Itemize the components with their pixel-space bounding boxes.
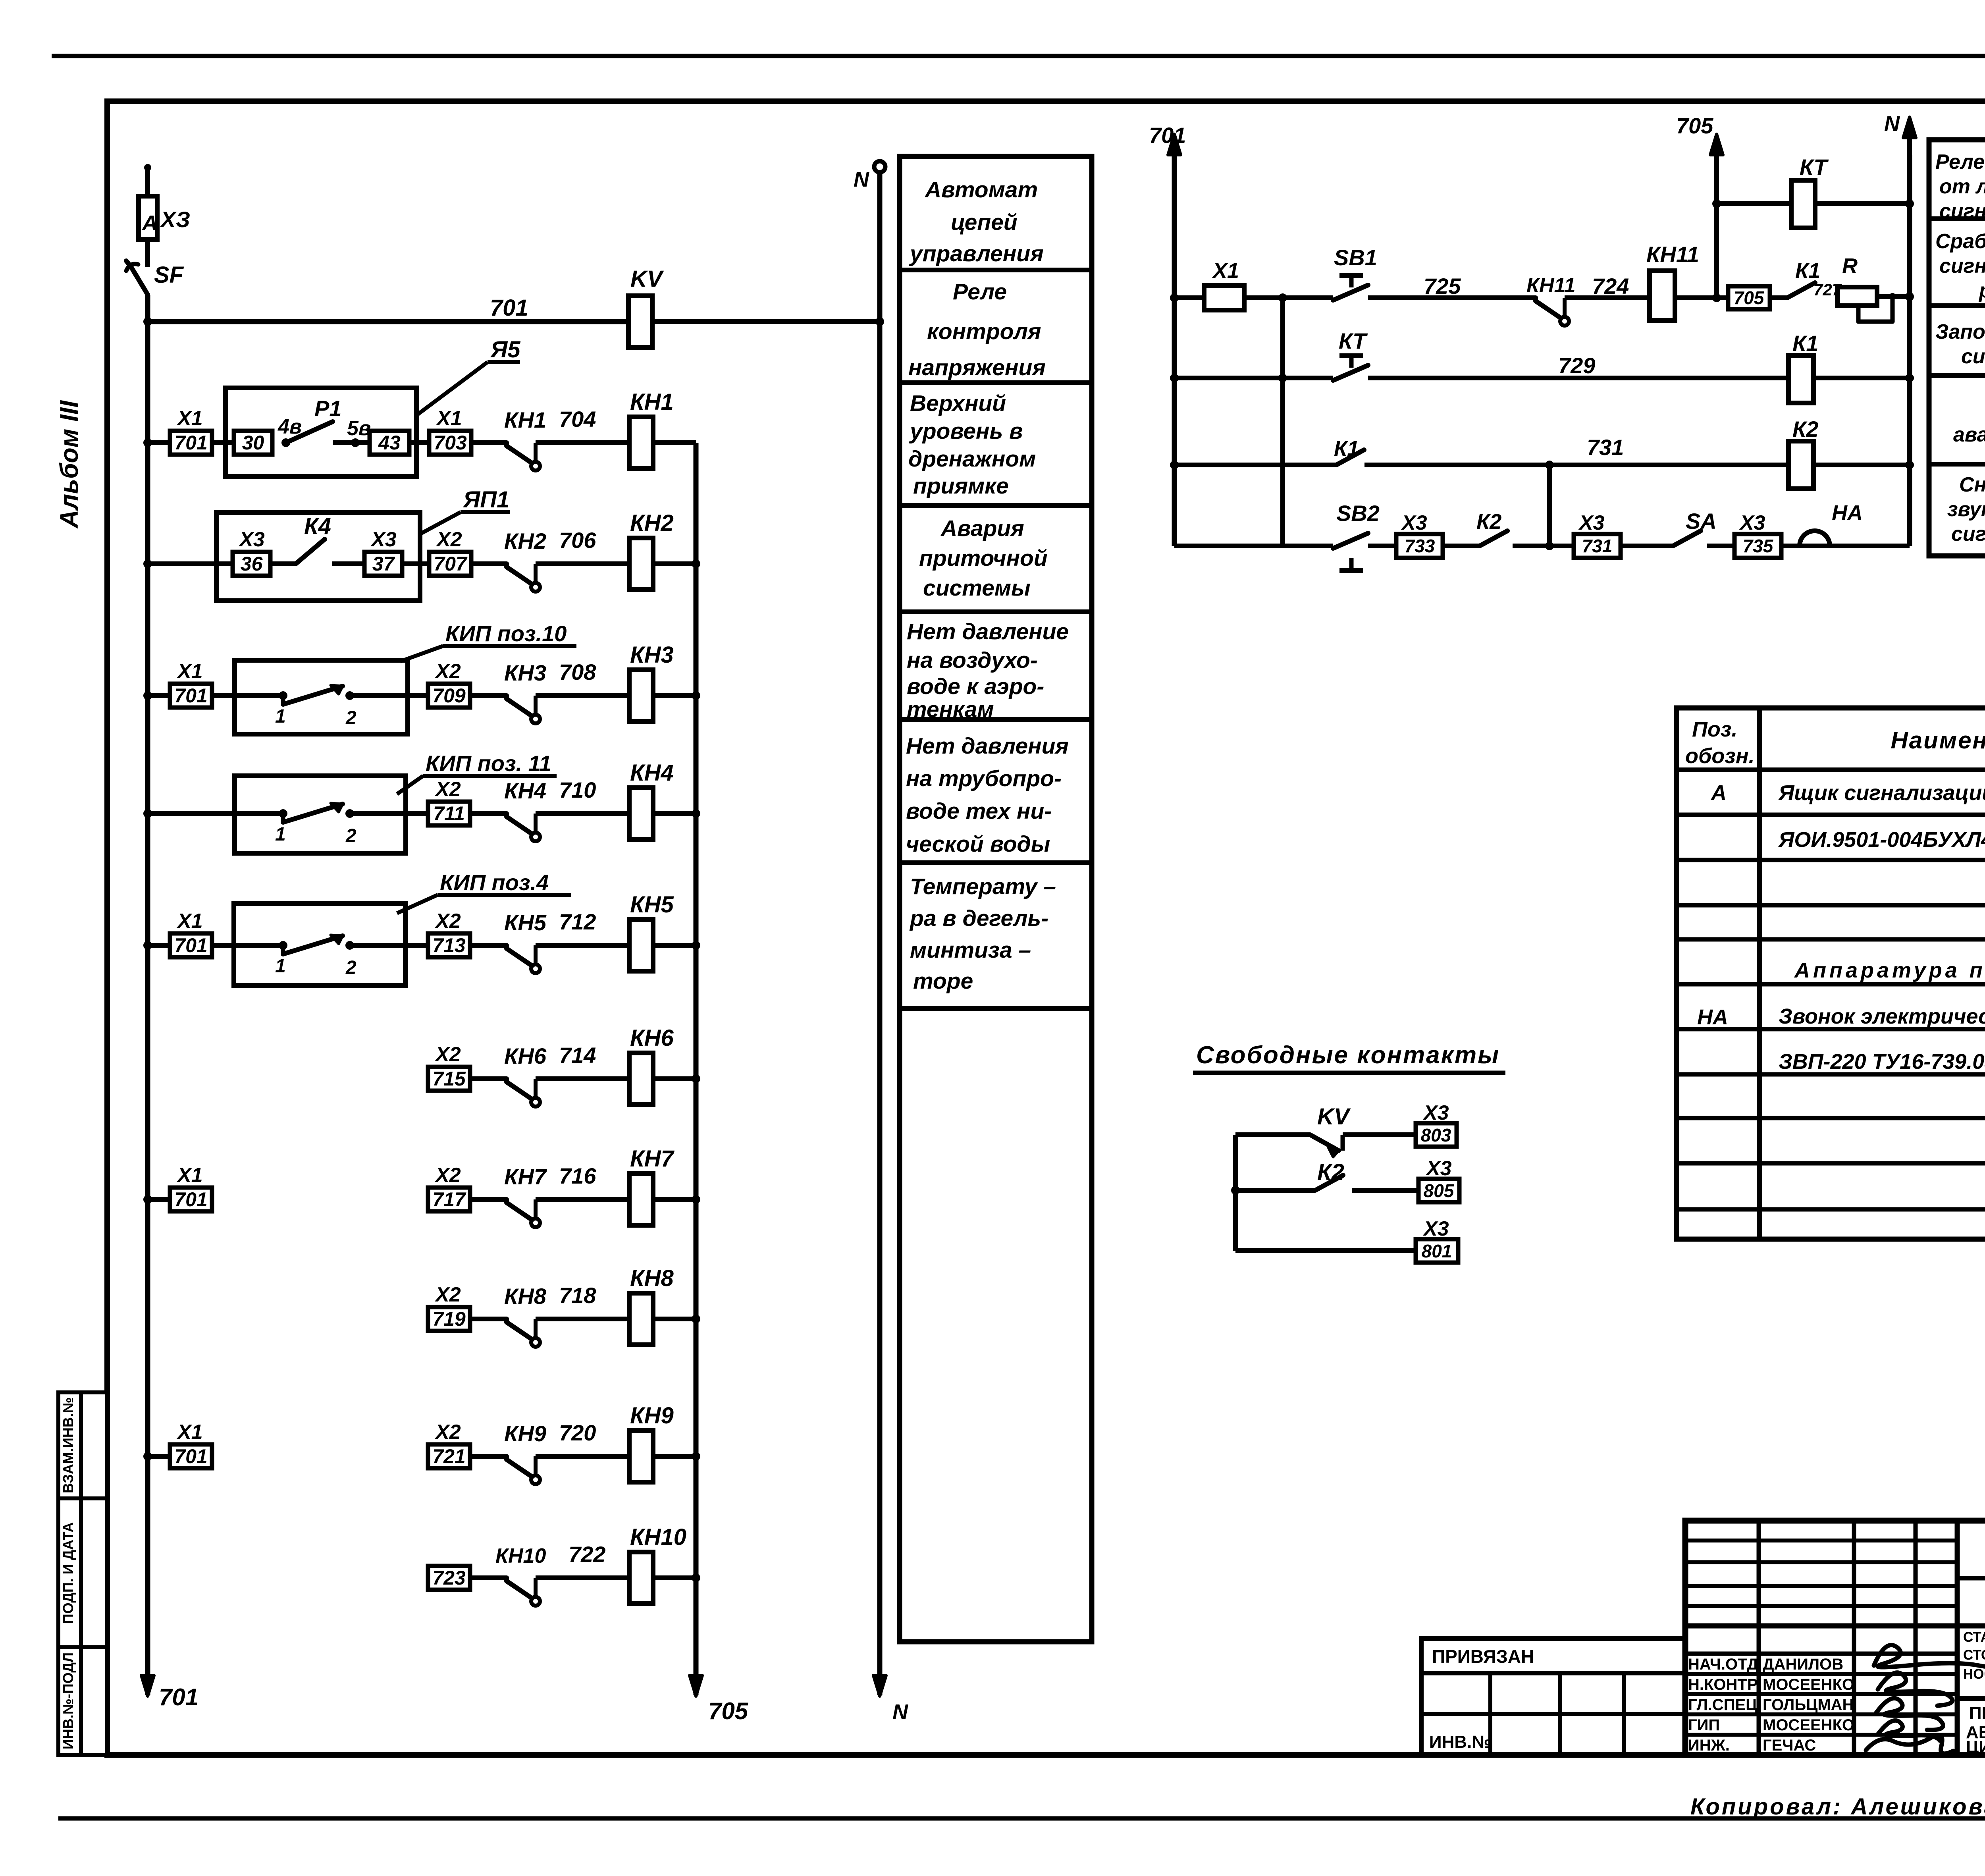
- free contacts left vertical wire: [1233, 1135, 1238, 1251]
- privyazan grid: [1421, 1712, 1685, 1716]
- svg-text:воде к аэро-: воде к аэро-: [907, 674, 1044, 699]
- svg-text:701: 701: [1149, 123, 1186, 148]
- wire КН11 coil to node: [1675, 295, 1728, 300]
- wire coil КН9 to bus 705: [653, 1454, 696, 1459]
- node row-d branch: [1545, 542, 1554, 550]
- wire 704: [536, 440, 629, 445]
- svg-text:Х2: Х2: [434, 910, 461, 933]
- branch vertical row-c to row-d: [1547, 465, 1552, 546]
- svg-text:КН7: КН7: [630, 1146, 675, 1172]
- svg-text:724: 724: [1592, 274, 1629, 299]
- wire 43 to X1/703: [409, 440, 429, 445]
- underline Аппаратура по месту: [1792, 982, 1985, 986]
- privyazan table box: [1421, 1639, 1685, 1755]
- node row3 bus 705: [692, 691, 700, 700]
- svg-text:ПОДП. И ДАТА: ПОДП. И ДАТА: [60, 1522, 76, 1624]
- svg-text:А: А: [1710, 781, 1727, 805]
- svg-text:708: 708: [559, 659, 596, 684]
- parts table header row line: [1677, 767, 1985, 772]
- wire SB2 to X3/733: [1368, 544, 1396, 548]
- svg-text:1: 1: [275, 706, 286, 727]
- wire coil КН5 to bus 705: [653, 943, 696, 948]
- wire 718: [536, 1317, 629, 1321]
- wire K2 to X3/805: [1352, 1188, 1418, 1193]
- wire K2 row: [1235, 1188, 1315, 1193]
- title block name rows: [1685, 1672, 1957, 1676]
- svg-text:на трубопро-: на трубопро-: [906, 766, 1062, 791]
- instrument box КИП поз. 11: [235, 776, 406, 853]
- svg-text:Звонок электрический: Звонок электрический: [1779, 1005, 1985, 1028]
- svg-text:703: 703: [434, 432, 467, 454]
- svg-text:КН10: КН10: [630, 1524, 686, 1550]
- svg-text:КН4: КН4: [630, 760, 674, 786]
- svg-text:Х3: Х3: [370, 528, 397, 551]
- wire 712: [536, 943, 629, 948]
- function column divider: [900, 268, 1092, 272]
- svg-text:К1: К1: [1795, 259, 1820, 283]
- node row-c at N bus: [1905, 461, 1914, 469]
- wire switch to X2 row3: [350, 693, 428, 698]
- node row7 bus 705: [692, 1195, 700, 1204]
- svg-text:обозн.: обозн.: [1685, 744, 1755, 768]
- svg-text:SB2: SB2: [1336, 501, 1380, 526]
- wire Х2-715 to contact КН6: [470, 1076, 507, 1081]
- wire bottom row to X3/801: [1235, 1248, 1416, 1253]
- svg-text:709: 709: [432, 684, 466, 707]
- svg-text:X1: X1: [1212, 259, 1239, 283]
- svg-text:701: 701: [174, 684, 207, 707]
- svg-text:КН7: КН7: [504, 1164, 547, 1189]
- relay function table box: [1929, 140, 1985, 556]
- svg-text:701: 701: [174, 1188, 207, 1211]
- wire coil КН4 to bus 705: [653, 811, 696, 816]
- svg-text:напряжения: напряжения: [908, 355, 1046, 380]
- wire None-723 to contact КН10: [470, 1575, 507, 1580]
- svg-text:Х2: Х2: [434, 1283, 461, 1306]
- svg-text:36: 36: [241, 553, 263, 575]
- wire 706: [536, 561, 629, 566]
- wire 701 rail: [148, 319, 628, 324]
- svg-text:СТОЧНЫХ ВОД ПРОИЗВОДИТЕЛЬ-: СТОЧНЫХ ВОД ПРОИЗВОДИТЕЛЬ-: [1963, 1647, 1985, 1663]
- node row2 bus 705: [692, 559, 700, 568]
- svg-text:Реле: Реле: [953, 279, 1007, 305]
- svg-text:R: R: [1842, 254, 1858, 278]
- svg-text:717: 717: [432, 1188, 466, 1211]
- svg-text:Ящик сигнализации ЯС: Ящик сигнализации ЯС: [1778, 781, 1985, 805]
- svg-text:КИП поз. 11: КИП поз. 11: [426, 751, 551, 776]
- svg-text:НА: НА: [1832, 501, 1863, 525]
- svg-text:К1: К1: [1792, 331, 1819, 356]
- wire X3/735 to bell: [1781, 544, 1800, 548]
- svg-text:звукового: звукового: [1947, 498, 1985, 521]
- title project name cell: [1963, 1629, 1985, 1682]
- svg-text:НАЧ.ОТД: НАЧ.ОТД: [1688, 1656, 1758, 1673]
- svg-text:Снятие: Снятие: [1959, 473, 1985, 496]
- svg-text:Х2: Х2: [434, 1421, 461, 1444]
- svg-text:701: 701: [174, 1445, 207, 1467]
- node P1 contact 2: [351, 438, 360, 447]
- svg-text:Копировал: Алешикова: Копировал: Алешикова: [1690, 1794, 1985, 1820]
- wire Х2-721 to contact КН9: [470, 1454, 507, 1459]
- svg-text:Р1: Р1: [314, 396, 342, 421]
- svg-text:торе: торе: [913, 968, 973, 994]
- svg-text:Реле отстройки: Реле отстройки: [1935, 150, 1985, 174]
- parts table row line: [1677, 1207, 1985, 1212]
- svg-text:тенкам: тенкам: [907, 697, 994, 722]
- wire row-b start: [1174, 376, 1333, 380]
- svg-text:SF: SF: [154, 262, 184, 288]
- N bus vertical: [877, 172, 883, 1695]
- svg-text:от ложных: от ложных: [1939, 175, 1985, 198]
- svg-text:ПРИВЯЗАН: ПРИВЯЗАН: [1432, 1646, 1534, 1667]
- riser 705 arrow: [1710, 134, 1723, 155]
- svg-text:НА: НА: [1697, 1005, 1728, 1029]
- svg-text:А: А: [141, 211, 158, 235]
- svg-text:731: 731: [1582, 536, 1613, 556]
- svg-text:КН1: КН1: [504, 407, 546, 432]
- svg-text:ЦИИ.: ЦИИ.: [1966, 1737, 1985, 1757]
- node row-b left: [1170, 374, 1179, 382]
- contact P1 blade: [286, 422, 333, 443]
- svg-text:701: 701: [490, 295, 528, 321]
- svg-text:711: 711: [433, 802, 465, 825]
- svg-text:КИП поз.4: КИП поз.4: [440, 870, 549, 895]
- signature Goltsman: [1876, 1698, 1943, 1730]
- svg-text:сигналов: сигналов: [1939, 200, 1985, 223]
- wire KV to X3/803: [1343, 1132, 1416, 1137]
- parts table row line: [1677, 858, 1985, 862]
- svg-text:КН6: КН6: [504, 1043, 547, 1068]
- svg-text:SB1: SB1: [1334, 245, 1377, 270]
- signature Moseenko 1: [1878, 1673, 1952, 1706]
- svg-text:704: 704: [559, 407, 596, 432]
- svg-text:Температу –: Температу –: [910, 874, 1056, 899]
- node row9 on bus 701: [143, 1452, 152, 1461]
- wire KT coil to N bus: [1815, 201, 1910, 206]
- svg-text:30: 30: [242, 432, 264, 454]
- wire coil КН7 to bus 705: [653, 1197, 696, 1202]
- parts table row line: [1677, 1072, 1985, 1077]
- wire 720: [536, 1454, 629, 1459]
- wire KV row: [1235, 1132, 1310, 1137]
- svg-text:KV: KV: [1317, 1104, 1351, 1130]
- svg-text:ГЛ.СПЕЦ: ГЛ.СПЕЦ: [1688, 1696, 1757, 1714]
- node row2 on bus 701: [143, 559, 152, 568]
- svg-text:Х3: Х3: [1425, 1157, 1452, 1180]
- svg-text:КН6: КН6: [630, 1025, 674, 1051]
- wire SA to X3/735: [1707, 544, 1734, 548]
- wire Х2-719 to contact КН8: [470, 1317, 507, 1321]
- svg-text:Х1: Х1: [176, 407, 203, 430]
- left margin box ПОДП. И ДАТА: [58, 1498, 107, 1647]
- title block vertical 4430: [1757, 1521, 1761, 1755]
- node row1 on bus 701: [143, 438, 152, 447]
- svg-text:721: 721: [432, 1445, 465, 1467]
- svg-text:Х3: Х3: [238, 528, 265, 551]
- svg-text:705: 705: [1676, 113, 1713, 138]
- svg-text:Автомат: Автомат: [924, 177, 1038, 202]
- svg-text:ГОЛЬЦМАН: ГОЛЬЦМАН: [1763, 1696, 1854, 1714]
- wire P1 to 43: [333, 440, 370, 445]
- wire K2 coil to N bus: [1813, 463, 1910, 467]
- svg-text:729: 729: [1558, 353, 1595, 378]
- svg-text:КН5: КН5: [504, 910, 547, 935]
- svg-text:Х3: Х3: [1578, 511, 1605, 534]
- svg-text:2: 2: [345, 957, 357, 978]
- svg-text:Наименование: Наименование: [1891, 727, 1985, 754]
- svg-text:Х3: Х3: [1422, 1217, 1449, 1240]
- title doc number cell line: [1957, 1576, 1985, 1581]
- svg-text:1: 1: [275, 824, 286, 845]
- svg-text:цепей: цепей: [951, 210, 1018, 235]
- wire row-a start: [1174, 295, 1204, 300]
- function column box: [900, 156, 1092, 1642]
- svg-text:МОСЕЕНКО: МОСЕЕНКО: [1763, 1716, 1854, 1734]
- wire X1 to SB1: [1244, 295, 1333, 300]
- wire coil КН10 to bus 705: [653, 1575, 696, 1580]
- svg-text:КН3: КН3: [630, 642, 674, 668]
- svg-text:КН4: КН4: [504, 778, 546, 803]
- relay function texts: [1935, 150, 1985, 546]
- wire coil КН6 to bus 705: [653, 1076, 696, 1081]
- wire to K2 contact: [1443, 544, 1480, 548]
- svg-text:Нет давление: Нет давление: [907, 619, 1069, 644]
- svg-text:707: 707: [434, 553, 468, 575]
- parts table row line: [1677, 1027, 1985, 1032]
- svg-text:Х2: Х2: [434, 1164, 461, 1187]
- svg-text:реле: реле: [1978, 279, 1985, 302]
- svg-text:701: 701: [174, 432, 207, 454]
- contact K4 blade: [296, 539, 325, 564]
- wire X1/701 to device box Я5: [212, 440, 234, 445]
- parts table row line: [1677, 1116, 1985, 1120]
- svg-text:706: 706: [559, 528, 596, 553]
- svg-text:Х3: Х3: [1401, 511, 1427, 534]
- node row-c left: [1170, 461, 1179, 469]
- svg-text:КН9: КН9: [630, 1403, 674, 1429]
- svg-text:712: 712: [559, 909, 596, 934]
- svg-text:5в: 5в: [347, 417, 371, 440]
- signature Gechas: [1866, 1735, 1953, 1754]
- terminal 43 in Я5: [370, 431, 409, 455]
- wire bus to X1/701 row3: [148, 693, 170, 698]
- parts table row line: [1677, 1161, 1985, 1166]
- parts table box: [1677, 708, 1985, 1239]
- wire bus to КИП box row4: [148, 811, 283, 816]
- svg-text:805: 805: [1424, 1180, 1455, 1201]
- svg-text:719: 719: [432, 1308, 466, 1330]
- parts table row line: [1677, 903, 1985, 908]
- node row6 bus 705: [692, 1074, 700, 1083]
- svg-text:705: 705: [1734, 287, 1765, 308]
- svg-text:ИНВ.№: ИНВ.№: [1429, 1732, 1491, 1752]
- svg-text:КН2: КН2: [630, 510, 674, 536]
- wire X1/701 to КИП box row5: [212, 943, 283, 948]
- sheet outer top border line: [52, 54, 1985, 58]
- wire Х2-709 to contact КН3: [470, 693, 507, 698]
- wire 710: [536, 811, 629, 816]
- parts table column Поз.обозн: [1757, 708, 1762, 1239]
- function column divider: [900, 503, 1092, 508]
- title block small row line: [1685, 1584, 1957, 1588]
- svg-text:КН3: КН3: [504, 660, 546, 685]
- wire switch to X2 row5: [350, 943, 428, 948]
- title block outline: [1685, 1521, 1985, 1755]
- svg-text:Х2: Х2: [434, 778, 461, 801]
- svg-text:сигнала: сигнала: [1961, 345, 1985, 368]
- wire 36 to K4: [270, 561, 296, 566]
- wire coil КН3 to bus 705: [653, 693, 696, 698]
- wire K1 coil to N bus: [1813, 376, 1910, 380]
- title block small row line: [1685, 1604, 1957, 1608]
- svg-text:Х2: Х2: [434, 660, 461, 683]
- switch 1-2 in КИП поз.10: [279, 691, 287, 700]
- wire to SA: [1621, 544, 1673, 548]
- node row7 on bus 701: [143, 1195, 152, 1204]
- svg-text:801: 801: [1422, 1241, 1452, 1261]
- node P1 contact 1: [281, 438, 290, 447]
- wire Х1-703 to contact КН1: [471, 440, 507, 445]
- svg-text:Н.КОНТР: Н.КОНТР: [1688, 1676, 1758, 1693]
- N bus bottom arrow: [877, 1633, 883, 1688]
- title block vertical 4670: [1852, 1521, 1856, 1755]
- svg-text:ХЗ: ХЗ: [160, 207, 190, 232]
- svg-text:ИНЖ.: ИНЖ.: [1688, 1737, 1730, 1754]
- wire switch to X2 row4: [350, 811, 428, 816]
- svg-text:2: 2: [345, 825, 357, 846]
- wire coil КН8 to bus 705: [653, 1317, 696, 1321]
- svg-text:сигнальных: сигнальных: [1939, 255, 1985, 278]
- relay function divider: [1929, 303, 1985, 308]
- svg-text:701: 701: [159, 1684, 198, 1710]
- node row5 on bus 701: [143, 941, 152, 950]
- fuse A: [139, 196, 157, 239]
- svg-text:733: 733: [1405, 536, 1435, 556]
- svg-text:СТАНЦИЯ БИОЛОГИЧЕСКОЙ ОЧИСТКИ: СТАНЦИЯ БИОЛОГИЧЕСКОЙ ОЧИСТКИ: [1963, 1629, 1985, 1645]
- svg-text:КН1: КН1: [630, 389, 674, 415]
- node row9 bus 705: [692, 1452, 700, 1461]
- node 705 riser: [1712, 293, 1721, 302]
- svg-text:2: 2: [345, 708, 357, 729]
- node free contacts K2 row: [1231, 1186, 1240, 1195]
- svg-text:сигнала: сигнала: [1951, 523, 1985, 546]
- wire K4 to 37: [332, 561, 364, 566]
- svg-text:дренажном: дренажном: [908, 446, 1036, 472]
- bus 701 right vertical: [1172, 137, 1177, 546]
- N bus top terminal circle: [874, 161, 885, 172]
- svg-text:Х2: Х2: [434, 1043, 461, 1066]
- wire KT row from riser: [1712, 199, 1721, 208]
- svg-text:контроля: контроля: [927, 319, 1041, 344]
- wire Х2-717 to contact КН7: [470, 1197, 507, 1202]
- svg-text:722: 722: [569, 1542, 605, 1567]
- bus 705 vertical: [694, 443, 699, 1695]
- svg-text:ГИП: ГИП: [1688, 1716, 1720, 1734]
- svg-text:КН11: КН11: [1646, 242, 1699, 267]
- svg-text:ра в дегель-: ра в дегель-: [909, 906, 1048, 931]
- resistor bypass loop: [1858, 297, 1892, 322]
- svg-text:ЯП1: ЯП1: [463, 487, 509, 513]
- svg-text:ГЕЧАС: ГЕЧАС: [1763, 1737, 1816, 1754]
- function column divider: [900, 860, 1092, 865]
- wire 716: [536, 1197, 629, 1202]
- bus 701 bottom arrow: [145, 1633, 150, 1688]
- svg-text:716: 716: [559, 1163, 596, 1188]
- function column divider: [900, 717, 1092, 722]
- relay function divider: [1929, 373, 1985, 378]
- node branch row-a: [1278, 293, 1287, 302]
- svg-text:ЯОИ.9501-004БУХЛ4: ЯОИ.9501-004БУХЛ4: [1778, 828, 1985, 852]
- svg-text:Х1: Х1: [176, 660, 203, 683]
- svg-text:НОСТЬЮ 200 М 3|СУТ.: НОСТЬЮ 200 М 3|СУТ.: [1963, 1666, 1985, 1682]
- terminal 723: [428, 1566, 470, 1590]
- svg-text:N: N: [1884, 112, 1900, 136]
- node row3 on bus 701: [143, 691, 152, 700]
- bus 705 bottom arrow: [694, 1633, 699, 1688]
- left margin box ВЗАМ.ИНВ.№: [58, 1392, 107, 1498]
- svg-text:723: 723: [432, 1567, 466, 1589]
- svg-text:КН2: КН2: [504, 528, 546, 553]
- svg-text:Х1: Х1: [436, 407, 462, 430]
- left margin box ИНВ.№-ПОДЛ: [58, 1647, 107, 1755]
- wire 724: [1565, 295, 1650, 300]
- svg-text:Х1: Х1: [176, 1164, 203, 1187]
- wire 729: [1368, 376, 1788, 380]
- title block vertical 4825: [1914, 1521, 1918, 1755]
- wire 722: [536, 1575, 629, 1580]
- branch vertical row-a to row-d: [1280, 298, 1285, 546]
- instrument box КИП поз.4: [234, 904, 405, 985]
- function column divider: [900, 380, 1092, 385]
- function column divider: [900, 609, 1092, 614]
- title block small row line: [1685, 1560, 1957, 1564]
- relay coil KV: [628, 296, 652, 347]
- svg-text:Аппаратура по месту: Аппаратура по месту: [1794, 958, 1985, 982]
- svg-text:705: 705: [708, 1698, 749, 1724]
- svg-text:Х2: Х2: [436, 528, 462, 551]
- svg-text:803: 803: [1421, 1125, 1451, 1145]
- node row4 bus 705: [692, 809, 700, 818]
- device box Я5 (P1): [225, 388, 416, 476]
- svg-text:аварии: аварии: [1953, 423, 1985, 446]
- parts table header texts: [1685, 717, 1985, 1074]
- svg-text:системы: системы: [923, 575, 1031, 601]
- svg-text:710: 710: [559, 777, 596, 802]
- node top of fuse wire: [144, 164, 151, 171]
- wire Х2-713 to contact КН5: [470, 943, 507, 948]
- wire Х2-707 to contact КН2: [471, 561, 507, 566]
- svg-text:КИП поз.10: КИП поз.10: [445, 621, 567, 646]
- svg-text:KV: KV: [630, 266, 664, 292]
- title block row line 4165: [1685, 1652, 1957, 1656]
- svg-text:ПРИНЦИПИАЛЬНАЯ СХЕМА: ПРИНЦИПИАЛЬНАЯ СХЕМА: [1969, 1704, 1985, 1723]
- bus 705 top corner: [694, 443, 699, 564]
- svg-text:1: 1: [275, 956, 286, 977]
- svg-text:Запоминание: Запоминание: [1935, 320, 1985, 343]
- svg-text:ВЗАМ.ИНВ.№: ВЗАМ.ИНВ.№: [60, 1397, 76, 1493]
- relay function divider: [1929, 462, 1985, 467]
- title block small row line: [1685, 1539, 1957, 1542]
- svg-text:Альбом III: Альбом III: [55, 400, 83, 529]
- bus 701 right top arrow: [1168, 134, 1181, 155]
- svg-text:Поз.: Поз.: [1692, 717, 1737, 741]
- wire fuse to SF: [145, 239, 150, 267]
- node row10 bus 705: [692, 1573, 700, 1582]
- svg-text:КН11: КН11: [1526, 274, 1576, 297]
- svg-text:Х1: Х1: [176, 910, 203, 933]
- node KT row at N bus: [1905, 199, 1914, 208]
- title block row line 4095: [1685, 1623, 1985, 1629]
